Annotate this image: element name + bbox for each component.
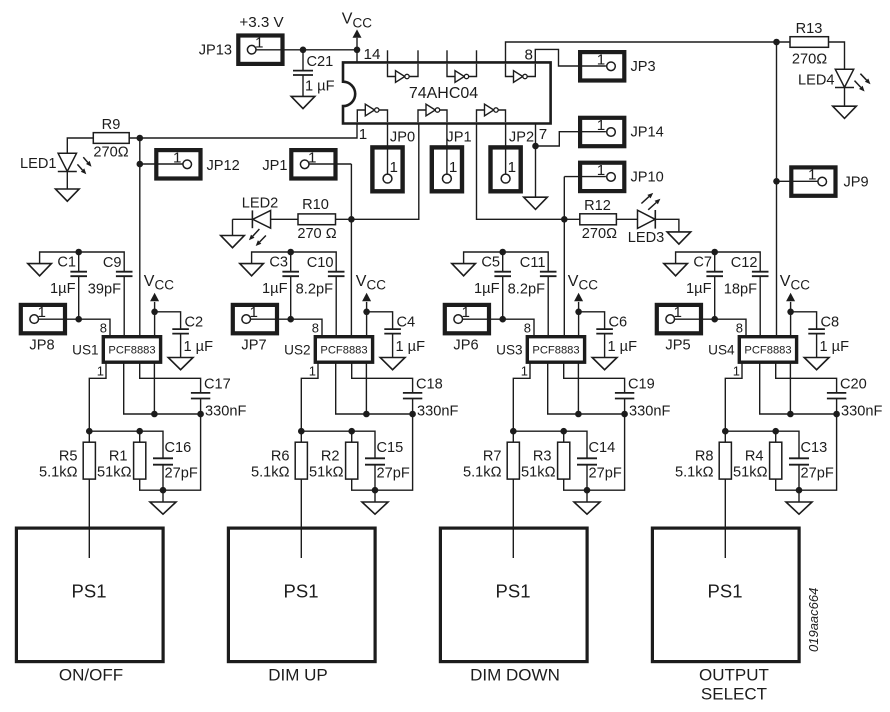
svg-text:JP1: JP1 <box>262 158 287 174</box>
svg-text:27pF: 27pF <box>377 466 410 482</box>
svg-text:PCF8883: PCF8883 <box>532 345 579 357</box>
svg-text:330nF: 330nF <box>417 404 458 420</box>
svg-text:R13: R13 <box>796 21 823 37</box>
svg-text:PCF8883: PCF8883 <box>108 345 155 357</box>
svg-text:SELECT: SELECT <box>701 685 767 704</box>
svg-text:C11: C11 <box>520 255 546 271</box>
svg-text:US2: US2 <box>284 343 310 358</box>
svg-text:C6: C6 <box>609 315 628 331</box>
svg-text:+3.3 V: +3.3 V <box>239 14 284 31</box>
svg-text:019aac664: 019aac664 <box>806 588 821 652</box>
svg-text:C19: C19 <box>628 377 655 393</box>
svg-text:270Ω: 270Ω <box>582 226 617 242</box>
svg-text:C2: C2 <box>185 315 204 331</box>
svg-text:39pF: 39pF <box>88 282 121 298</box>
svg-text:18pF: 18pF <box>724 282 757 298</box>
svg-text:5.1kΩ: 5.1kΩ <box>463 465 502 481</box>
svg-text:1 µF: 1 µF <box>396 339 426 355</box>
svg-text:PCF8883: PCF8883 <box>320 345 367 357</box>
svg-text:270Ω: 270Ω <box>93 145 128 161</box>
svg-text:PS1: PS1 <box>708 581 743 602</box>
svg-text:R9: R9 <box>102 117 121 133</box>
svg-text:R10: R10 <box>302 197 329 213</box>
svg-text:5.1kΩ: 5.1kΩ <box>675 465 714 481</box>
svg-text:1µF: 1µF <box>474 281 500 297</box>
svg-text:PS1: PS1 <box>496 581 531 602</box>
svg-text:8: 8 <box>100 320 107 335</box>
svg-text:JP13: JP13 <box>199 43 232 59</box>
svg-text:5.1kΩ: 5.1kΩ <box>39 465 78 481</box>
svg-text:R8: R8 <box>695 449 714 465</box>
svg-text:C15: C15 <box>377 440 404 456</box>
svg-text:330nF: 330nF <box>841 404 882 420</box>
svg-text:C14: C14 <box>589 440 616 456</box>
svg-text:C8: C8 <box>821 315 840 331</box>
svg-text:R7: R7 <box>483 449 502 465</box>
svg-text:PCF8883: PCF8883 <box>744 345 791 357</box>
svg-text:JP6: JP6 <box>453 338 478 354</box>
svg-text:270 Ω: 270 Ω <box>297 226 336 242</box>
svg-text:PS1: PS1 <box>72 581 107 602</box>
svg-text:C20: C20 <box>840 377 867 393</box>
svg-text:51kΩ: 51kΩ <box>97 465 132 481</box>
svg-text:R6: R6 <box>271 449 290 465</box>
svg-text:JP0: JP0 <box>390 130 415 146</box>
svg-text:1 µF: 1 µF <box>184 339 214 355</box>
svg-text:C4: C4 <box>397 315 416 331</box>
svg-text:8.2pF: 8.2pF <box>508 282 545 298</box>
svg-text:1 µF: 1 µF <box>305 79 335 95</box>
svg-text:JP5: JP5 <box>665 338 690 354</box>
svg-text:5.1kΩ: 5.1kΩ <box>251 465 290 481</box>
svg-text:1 µF: 1 µF <box>608 339 638 355</box>
svg-text:C16: C16 <box>165 440 192 456</box>
svg-text:C17: C17 <box>204 377 231 393</box>
svg-text:1µF: 1µF <box>50 281 76 297</box>
svg-text:OUTPUT: OUTPUT <box>699 666 769 685</box>
svg-text:JP1: JP1 <box>446 130 471 146</box>
svg-text:LED4: LED4 <box>798 73 835 89</box>
svg-text:US3: US3 <box>496 343 522 358</box>
svg-text:8: 8 <box>525 47 533 64</box>
svg-text:8.2pF: 8.2pF <box>296 282 333 298</box>
svg-text:1: 1 <box>309 364 316 379</box>
svg-text:LED3: LED3 <box>628 230 665 246</box>
svg-text:C12: C12 <box>731 255 758 271</box>
svg-text:8: 8 <box>524 320 531 335</box>
svg-text:270Ω: 270Ω <box>792 52 827 68</box>
svg-text:C5: C5 <box>481 255 500 271</box>
svg-text:1: 1 <box>508 159 516 176</box>
svg-text:R5: R5 <box>59 449 78 465</box>
svg-text:JP7: JP7 <box>241 338 266 354</box>
svg-text:1: 1 <box>359 126 367 143</box>
svg-text:8: 8 <box>312 320 319 335</box>
svg-text:C10: C10 <box>307 255 334 271</box>
svg-text:1: 1 <box>449 159 457 176</box>
svg-text:330nF: 330nF <box>205 404 246 420</box>
svg-text:JP2: JP2 <box>509 130 534 146</box>
svg-text:14: 14 <box>364 46 381 63</box>
svg-text:US1: US1 <box>72 343 98 358</box>
svg-text:1: 1 <box>390 159 398 176</box>
svg-text:C21: C21 <box>307 54 334 70</box>
svg-text:1: 1 <box>97 364 104 379</box>
svg-text:330nF: 330nF <box>629 404 670 420</box>
svg-text:JP10: JP10 <box>631 170 664 186</box>
svg-text:LED1: LED1 <box>20 156 57 172</box>
svg-text:1: 1 <box>521 364 528 379</box>
svg-text:C1: C1 <box>57 255 76 271</box>
svg-text:PS1: PS1 <box>284 581 319 602</box>
svg-text:JP3: JP3 <box>631 59 656 75</box>
svg-text:51kΩ: 51kΩ <box>521 465 556 481</box>
svg-text:27pF: 27pF <box>165 466 198 482</box>
svg-text:1µF: 1µF <box>686 281 712 297</box>
svg-text:US4: US4 <box>708 343 735 358</box>
svg-text:ON/OFF: ON/OFF <box>59 666 123 685</box>
svg-text:C9: C9 <box>103 255 122 271</box>
svg-text:JP12: JP12 <box>207 158 240 174</box>
svg-text:27pF: 27pF <box>589 466 622 482</box>
svg-text:1: 1 <box>597 51 605 68</box>
svg-text:C18: C18 <box>416 377 443 393</box>
svg-text:DIM DOWN: DIM DOWN <box>470 666 560 685</box>
svg-text:R2: R2 <box>321 449 340 465</box>
svg-text:1: 1 <box>597 117 605 134</box>
svg-text:27pF: 27pF <box>801 466 834 482</box>
svg-text:R4: R4 <box>745 449 764 465</box>
svg-text:1 µF: 1 µF <box>820 339 850 355</box>
svg-text:JP9: JP9 <box>844 175 869 191</box>
svg-text:R3: R3 <box>533 449 552 465</box>
svg-text:LED2: LED2 <box>242 196 279 212</box>
svg-text:C3: C3 <box>269 255 288 271</box>
svg-text:1: 1 <box>733 364 740 379</box>
svg-text:R1: R1 <box>109 449 128 465</box>
svg-text:DIM UP: DIM UP <box>268 666 328 685</box>
svg-text:7: 7 <box>539 126 547 143</box>
svg-text:JP14: JP14 <box>631 125 664 141</box>
svg-text:8: 8 <box>736 320 743 335</box>
svg-text:R12: R12 <box>584 198 611 214</box>
svg-text:1µF: 1µF <box>262 281 288 297</box>
svg-text:C7: C7 <box>693 255 712 271</box>
svg-text:C13: C13 <box>801 440 828 456</box>
svg-text:74AHC04: 74AHC04 <box>409 85 478 102</box>
svg-text:51kΩ: 51kΩ <box>309 465 344 481</box>
svg-text:JP8: JP8 <box>29 338 54 354</box>
svg-text:51kΩ: 51kΩ <box>733 465 768 481</box>
